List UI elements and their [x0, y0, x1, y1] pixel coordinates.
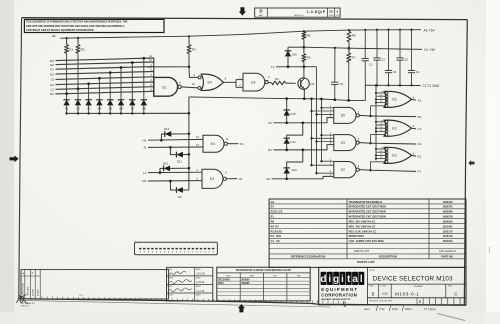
svg-text:E4: E4	[251, 80, 255, 84]
svg-text:E4: E4	[271, 205, 275, 209]
wire common node line (ground)	[189, 85, 421, 100]
wire node line to V1 +3V	[349, 48, 422, 49]
svg-text:L1: L1	[143, 171, 147, 175]
wire E5 input pin 2	[310, 109, 333, 112]
capacitor C3	[373, 29, 385, 87]
svg-text:Q1: Q1	[310, 82, 314, 86]
svg-text:10-1-68: 10-1-68	[197, 273, 206, 276]
transistor Q1	[298, 78, 315, 89]
svg-text:1-0-EQIP: 1-0-EQIP	[307, 10, 326, 14]
svg-text:N1: N1	[239, 177, 243, 181]
svg-text:B1: B1	[418, 115, 422, 119]
svg-text:D11: D11	[177, 160, 182, 164]
wire H1 to pin 12	[148, 138, 203, 141]
svg-text:DEC: DEC	[226, 276, 231, 278]
wire E5 input stubs	[375, 92, 385, 104]
wire M1 to pin 5	[148, 180, 202, 182]
node U2/R3 junction	[188, 66, 191, 69]
svg-text:K1: K1	[240, 142, 244, 146]
svg-text:1503100: 1503100	[442, 200, 453, 204]
svg-text:PART NO.: PART NO.	[441, 254, 453, 258]
capacitor C1	[408, 29, 420, 87]
wire diode common bus	[67, 112, 189, 114]
wire D1 line	[359, 135, 416, 145]
capacitor C6	[331, 47, 343, 100]
gate E5 4-input NAND	[334, 107, 360, 123]
svg-text:R7: R7	[352, 56, 356, 60]
svg-text:C2: C2	[369, 63, 373, 67]
svg-text:L2: L2	[51, 88, 55, 92]
svg-text:R6: R6	[307, 33, 311, 37]
wire column for diode D2	[77, 53, 80, 100]
title block	[319, 267, 466, 304]
svg-text:DATE: DATE	[196, 294, 202, 297]
svg-text:D1: D1	[418, 142, 422, 146]
resistor R1	[65, 37, 74, 53]
svg-text:C1: C1	[416, 70, 420, 74]
svg-text:R3: R3	[192, 48, 196, 52]
wire column for diode D5	[109, 71, 112, 99]
wire central vertical from diode bus	[188, 113, 190, 190]
svg-text:C1: C1	[418, 127, 422, 131]
wire E4 output to K1	[227, 143, 238, 145]
wire +5V rail to A2	[60, 30, 421, 39]
svg-text:D15: D15	[290, 112, 296, 116]
svg-text:1303179: 1303179	[442, 229, 453, 233]
svg-text:D13: D13	[292, 168, 298, 172]
svg-text:DATE: DATE	[196, 276, 202, 279]
wire bus vertical B	[311, 99, 313, 165]
svg-text:a: a	[352, 274, 358, 285]
node R5/T2/collector junction	[303, 65, 306, 68]
diode D10	[159, 161, 191, 174]
wire column for diode D4	[98, 77, 101, 100]
fold arrow left	[10, 155, 19, 162]
svg-text:C3: C3	[381, 57, 385, 61]
svg-text:D10: D10	[163, 161, 169, 165]
svg-text:i: i	[341, 274, 344, 285]
wire input H2	[50, 69, 154, 77]
wire E5 input pin 4	[315, 113, 333, 116]
wire E2 output to E1	[412, 154, 417, 157]
svg-text:7/14: 7/14	[379, 307, 385, 311]
svg-text:CIRCUITS ARE PROPRIETARY IN NA: CIRCUITS ARE PROPRIETARY IN NATURE AND S…	[26, 25, 125, 28]
svg-text:1001610: 1001610	[442, 239, 453, 243]
svg-text:t: t	[347, 274, 351, 285]
svg-text:RES. 330 1/4W 5% CC: RES. 330 1/4W 5% CC	[349, 220, 376, 224]
svg-text:U2: U2	[148, 65, 152, 69]
gate E4 (pins 12,13 output 11)	[203, 135, 229, 152]
gate E2 4-input NAND	[334, 162, 360, 178]
svg-text:swp: swp	[79, 294, 84, 297]
svg-text:1300295: 1300295	[442, 220, 453, 224]
wire U2 to R3 junction	[153, 66, 189, 68]
pencil scribble bottom-left	[17, 295, 29, 305]
svg-text:A-PL-M103-0-0: A-PL-M103-0-0	[439, 250, 457, 253]
resistor R7	[347, 48, 356, 100]
title text	[369, 270, 453, 283]
wire input bus vertical to expander gates	[375, 86, 377, 161]
wire +5V to R6	[303, 30, 305, 32]
wire E5 output to A1	[412, 98, 417, 101]
svg-text:ENG.: ENG.	[168, 286, 173, 288]
svg-text:◄: ◄	[22, 272, 24, 275]
wire column for diode D7	[131, 61, 134, 99]
svg-text:E4: E4	[210, 177, 214, 181]
svg-text:PRINTED CIRCUIT REV.: PRINTED CIRCUIT REV.	[369, 301, 393, 303]
wire input N2	[50, 89, 154, 97]
svg-text:MAYNARD. MASSACHUSETTS: MAYNARD. MASSACHUSETTS	[321, 298, 351, 301]
svg-text:R4 -R7: R4 -R7	[271, 224, 280, 228]
svg-text:E5: E5	[392, 98, 396, 102]
svg-text:DEC: DEC	[273, 276, 278, 278]
gate E3 4-input NAND	[334, 135, 360, 151]
svg-text:A 00893: A 00893	[32, 289, 35, 296]
diode D2	[75, 100, 81, 115]
gate E2 expander OR	[384, 147, 415, 163]
wire F1 line	[359, 162, 416, 172]
wire node line drop at x=188.9	[188, 97, 190, 113]
diode D1	[63, 100, 69, 115]
svg-text:REFERENCE DESIGNATION: REFERENCE DESIGNATION	[291, 254, 326, 258]
svg-text:109: 109	[336, 15, 339, 17]
svg-text:E2: E2	[50, 63, 54, 67]
diode D11	[169, 146, 190, 164]
wire B1 line	[359, 106, 416, 117]
svg-text:SIZE: SIZE	[369, 286, 374, 288]
fold arrow bottom	[238, 304, 245, 312]
node dots on ground line	[285, 97, 350, 102]
svg-text:RES. 750 1/4W 5% CC: RES. 750 1/4W 5% CC	[349, 224, 376, 228]
svg-text:D: D	[259, 9, 262, 14]
svg-text:R4: R4	[275, 77, 279, 81]
diode D3	[85, 100, 91, 115]
gate E3 expander OR	[384, 120, 415, 136]
svg-text:B 00912: B 00912	[38, 289, 40, 296]
proprietary notice box	[24, 19, 164, 32]
diode D9	[169, 180, 189, 199]
wire S2 line	[272, 176, 334, 178]
svg-text:B: B	[372, 291, 375, 296]
svg-text:E1: E1	[418, 154, 422, 158]
svg-text:T2: T2	[271, 65, 275, 69]
svg-text:DATE: DATE	[196, 285, 202, 288]
svg-text:P2: P2	[268, 121, 272, 125]
svg-text:A1: A1	[418, 98, 422, 102]
svg-text:CODE: CODE	[380, 286, 386, 288]
svg-text:COPYRIGHT 1968 BY DIGITAL EQUI: COPYRIGHT 1968 BY DIGITAL EQUIPMENT CORP…	[26, 29, 94, 32]
printed circuit rev row	[367, 298, 466, 305]
svg-text:TITLE: TITLE	[369, 270, 375, 272]
svg-text:l: l	[360, 274, 363, 285]
gate E1 8-input NAND	[154, 77, 181, 96]
wire P2 line	[274, 118, 334, 123]
wire input K2	[50, 79, 154, 87]
wire R2 line	[274, 145, 334, 150]
svg-text:93Ω1: 93Ω1	[405, 307, 412, 311]
svg-text:THIS SCHEMATIC IS FURNISHED ON: THIS SCHEMATIC IS FURNISHED ONLY FOR TES…	[26, 21, 128, 24]
handwritten inspection marks	[343, 302, 436, 311]
svg-text:R8: R8	[271, 220, 275, 224]
svg-text:TRANSISTOR & DIODE CONVERSION: TRANSISTOR & DIODE CONVERSION CHART	[236, 268, 292, 272]
svg-text:DEVICE SELECTOR M103: DEVICE SELECTOR M103	[373, 276, 453, 283]
svg-text:ABC: ABC	[259, 14, 264, 17]
svg-text:E1: E1	[271, 215, 275, 219]
fold arrow top	[239, 7, 246, 15]
resistor R8	[347, 32, 356, 49]
svg-text:CAP. .01MFD 100V 20% DISC: CAP. .01MFD 100V 20% DISC	[349, 239, 385, 243]
svg-text:E2: E2	[392, 154, 396, 158]
wire R2 staircase to D13	[287, 150, 303, 168]
svg-text:M103-0-1: M103-0-1	[395, 291, 419, 296]
svg-text:CS: CS	[382, 291, 388, 296]
wire E5 input pin 5	[330, 116, 332, 118]
capacitor C5	[396, 29, 408, 87]
svg-text:1301401: 1301401	[442, 224, 453, 228]
wire E3 output to C1	[412, 127, 417, 130]
svg-text:d: d	[320, 274, 326, 285]
wire column for diode D1	[65, 53, 68, 100]
edge connector	[135, 242, 218, 255]
svg-text:D16: D16	[292, 53, 298, 57]
gate E4 (pins 9,10 output 8)	[192, 73, 227, 91]
gate E5 expander OR	[384, 91, 415, 107]
top drawing-number strip	[255, 8, 340, 17]
size code number row	[367, 284, 466, 298]
svg-text:2-25-69: 2-25-69	[195, 281, 205, 284]
svg-text:E4: E4	[211, 142, 215, 146]
wire E3 input pin 4	[315, 140, 333, 143]
diode D6	[118, 100, 124, 115]
resistor R6	[302, 32, 311, 47]
wire bus vertical C	[321, 99, 323, 161]
svg-text:DESCRIPTION: DESCRIPTION	[379, 254, 397, 258]
svg-text:INTEGRATED CKT. DEC7440N: INTEGRATED CKT. DEC7440N	[349, 210, 386, 214]
diode D8	[141, 100, 147, 115]
wire column for diode D8	[142, 57, 145, 100]
svg-text:1906578: 1906578	[442, 215, 453, 219]
svg-text:M1: M1	[142, 179, 147, 183]
svg-text:C4: C4	[393, 70, 397, 74]
svg-text:RES. 8.2K 1/4W 5% CC: RES. 8.2K 1/4W 5% CC	[349, 229, 377, 233]
wire L1 to pin 4	[148, 171, 202, 173]
svg-text:R1,R2,R3: R1,R2,R3	[271, 229, 283, 233]
diode D12	[160, 127, 190, 142]
svg-text:CORPORATION: CORPORATION	[321, 292, 357, 297]
svg-text:i: i	[328, 274, 331, 285]
diode D16	[285, 47, 297, 68]
svg-text:D14: D14	[290, 140, 296, 144]
svg-text:1103116: 1103116	[443, 234, 453, 238]
svg-text:REV.: REV.	[448, 286, 453, 288]
svg-text:H1: H1	[143, 138, 147, 142]
resistor R2	[76, 37, 85, 53]
wire input J2	[51, 74, 154, 82]
gate E4 (pins 4,5 output 6)	[202, 169, 227, 188]
fold arrow right	[468, 160, 474, 166]
node R6/R5 junction	[303, 46, 306, 49]
wire node line R6 node to R8 node	[304, 47, 349, 48]
svg-text:R8: R8	[352, 33, 356, 37]
svg-text:E5: E5	[341, 114, 345, 118]
wire E2 input pin 2	[310, 164, 333, 167]
diode D5	[107, 100, 113, 115]
resistor R5	[302, 47, 311, 66]
svg-text:R2: R2	[81, 48, 85, 52]
svg-text:pwrs: pwrs	[363, 307, 371, 311]
svg-text:EIA: EIA	[250, 275, 254, 278]
svg-text:K2: K2	[50, 83, 54, 87]
svg-text:REVISIONS: REVISIONS	[23, 283, 25, 295]
svg-text:CHK DATE: CHK DATE	[27, 286, 30, 296]
svg-text:CHK'D: CHK'D	[168, 277, 174, 279]
svg-text:DEC3009B: DEC3009B	[218, 280, 230, 282]
diode D15	[284, 99, 296, 125]
svg-text:D9: D9	[178, 195, 182, 199]
svg-text:S2: S2	[266, 177, 270, 181]
svg-text:20102: 20102	[329, 15, 334, 17]
svg-text:F2: F2	[50, 67, 54, 71]
wire E2 input pin 5	[330, 175, 332, 177]
svg-text:2-27-69: 2-27-69	[195, 290, 205, 293]
capacitor C4	[385, 29, 397, 87]
svg-text:INTEGRATED CKT. DEC7400N: INTEGRATED CKT. DEC7400N	[349, 205, 386, 209]
svg-text:Q1: Q1	[271, 200, 275, 204]
svg-text:SD: SD	[329, 10, 333, 14]
wire J1 to pin 13	[148, 146, 203, 148]
svg-text:C2,T1 GND: C2,T1 GND	[423, 84, 440, 88]
svg-text:E1: E1	[162, 85, 166, 89]
wire E2 input stubs	[375, 148, 385, 160]
wire input D2	[50, 55, 154, 63]
svg-text:R5: R5	[307, 56, 311, 60]
svg-text:D1 - D16: D1 - D16	[271, 234, 282, 238]
svg-text:DRN.: DRN.	[168, 269, 173, 271]
svg-text:D664: D664	[218, 282, 224, 285]
wire input E2	[50, 59, 154, 67]
pencil diagonal bottom right	[437, 314, 465, 321]
svg-text:F1: F1	[418, 170, 422, 174]
signature block	[167, 267, 213, 301]
op-amp style ladder bar for E1 inputs	[153, 58, 155, 97]
svg-text:V1 +3V: V1 +3V	[424, 48, 436, 52]
wire E1 output to E4 pin 10	[181, 87, 198, 88]
wire R6 node to D16	[288, 46, 304, 48]
parts list table	[269, 199, 466, 267]
DEC form number text	[21, 303, 36, 308]
digital logo	[320, 272, 364, 301]
svg-text:DIODE D664: DIODE D664	[349, 234, 365, 238]
svg-text:M103-0-1: M103-0-1	[294, 15, 304, 17]
svg-text:1N3606: 1N3606	[241, 283, 250, 285]
node R8/R7 junction	[348, 47, 351, 50]
tick mark near rail start	[52, 35, 55, 37]
svg-text:E3: E3	[392, 127, 396, 131]
svg-text:D12: D12	[164, 127, 170, 131]
svg-text:J2: J2	[51, 78, 55, 82]
svg-text:R1: R1	[69, 48, 73, 52]
gate E4 (pins 1,2 output 3)	[243, 73, 270, 91]
svg-text:TRANSISTOR DEC3009B-B: TRANSISTOR DEC3009B-B	[349, 200, 383, 204]
svg-text:C5: C5	[404, 57, 408, 61]
svg-text:1905586: 1905586	[442, 210, 453, 214]
wire input L2	[51, 84, 154, 92]
svg-text:g: g	[333, 274, 339, 285]
wire P2 staircase to D14	[287, 123, 303, 138]
svg-text:9/16: 9/16	[392, 307, 398, 311]
bottom border tick marks	[19, 296, 344, 307]
svg-text:R2: R2	[268, 148, 272, 152]
svg-text:INTEGRATED CKT. DEC7430N: INTEGRATED CKT. DEC7430N	[349, 215, 386, 219]
wire input F2	[50, 64, 153, 72]
diode D13	[284, 168, 298, 180]
svg-text:A2 +5V: A2 +5V	[424, 28, 436, 32]
diode D7	[129, 100, 135, 115]
diode D4	[96, 100, 102, 115]
svg-text:DRB 102: DRB 102	[21, 306, 30, 308]
border frame	[19, 18, 468, 306]
wire E5 input pin 1	[320, 106, 333, 109]
wire column for diode D6	[120, 66, 123, 99]
wire E3 input pin 2	[310, 137, 333, 140]
svg-text:2N3009: 2N3009	[241, 280, 250, 282]
revisions block	[21, 270, 169, 299]
svg-text:PARTS LIST: PARTS LIST	[357, 260, 375, 264]
svg-text:EIA: EIA	[297, 275, 301, 278]
svg-text:C1 - C6: C1 - C6	[271, 239, 280, 243]
svg-text:E2,E3 ,E5: E2,E3 ,E5	[271, 210, 283, 214]
wire E4 output to E4 pins 1,2	[223, 76, 243, 87]
wire E3 input stubs	[375, 120, 385, 132]
svg-text:NUMBER: NUMBER	[414, 286, 423, 288]
wire Q1 collector up	[303, 67, 305, 79]
svg-text:PROD.: PROD.	[168, 295, 174, 297]
resistor R3	[187, 35, 196, 67]
svg-text:E2: E2	[341, 168, 345, 172]
wire T2 line	[276, 66, 317, 68]
wire E3 input pin 1	[320, 134, 333, 137]
svg-text:1905575: 1905575	[442, 205, 453, 209]
wire E3 input pin 5	[330, 143, 332, 145]
wire +5V to R8	[348, 29, 350, 31]
svg-text:PARTS LIST: PARTS LIST	[354, 249, 369, 253]
svg-text:E3: E3	[341, 141, 345, 145]
wire Q1 emitter down	[303, 89, 305, 99]
diode D14	[284, 138, 296, 151]
svg-text:E4: E4	[208, 81, 212, 85]
svg-text:N2: N2	[50, 92, 54, 96]
svg-text:P I N K: P I N K	[425, 307, 437, 311]
svg-text:J1: J1	[143, 146, 147, 150]
transistor and diode conversion chart	[217, 267, 310, 301]
svg-text:H2: H2	[50, 72, 54, 76]
svg-text:C6: C6	[339, 82, 343, 86]
wire bus vertical A (T2)	[316, 67, 318, 174]
resistor R4	[268, 77, 296, 85]
wire column for diode D3	[87, 82, 90, 99]
capacitor C2	[362, 29, 373, 85]
wire E2 input pin 4	[315, 172, 333, 175]
wire E2 input pin 1	[320, 160, 333, 163]
svg-text:DATE: DATE	[196, 268, 202, 271]
wire junction down to E4 pin 9	[189, 67, 198, 78]
wire E4 output to N1	[226, 178, 237, 180]
